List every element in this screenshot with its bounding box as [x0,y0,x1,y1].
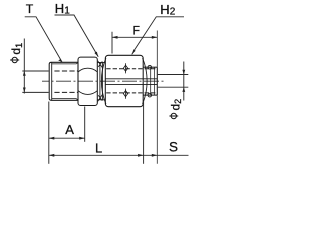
svg-text:F: F [133,23,141,37]
svg-text:S: S [169,139,178,154]
bore passage lower line [105,83,157,85]
collar cross top [98,61,103,68]
diamond bottom tick [125,89,127,99]
phi d2 extension bottom [158,86,189,88]
collar cross bottom [98,95,103,102]
phi d1 arrow down [23,88,26,93]
thread dashed core top [54,70,78,72]
H2 leader [132,17,184,55]
T leader arrow [58,59,62,62]
thread dashed core bottom [54,91,78,93]
svg-text:L: L [95,141,102,156]
F arrow right [152,36,158,39]
diamond top tick [125,63,127,73]
phi d1 extension bottom [22,91,48,93]
thread chamfer vertical [51,62,53,100]
A right extension [84,107,86,142]
dimension and leader lines [22,15,188,164]
A arrow left [49,137,55,140]
collar inner vertical 1 [150,67,152,95]
body end face [156,67,158,95]
collar between hexes [97,62,105,99]
phi d1 arrow up [23,71,26,76]
F dimension line [112,36,157,38]
L arrow right [138,154,144,157]
release collar circle top [148,65,152,69]
H1 leader [55,15,99,57]
bore passage upper line [105,78,157,80]
diamond on bottom dashed [123,91,127,97]
F arrow left [112,36,118,39]
label phi d1 (rotated) [9,43,24,63]
hex H2 outline [105,55,143,106]
diamond on top dashed [123,65,127,71]
hex H1 bottom facet arc [78,91,97,95]
hex H2 right facet arc [143,58,148,104]
L arrow left [49,154,55,157]
A dimension line [49,137,85,139]
A arrow right [79,137,85,140]
hex H1 outline [78,57,97,105]
svg-text:T: T [26,2,34,16]
arrowheads [23,36,185,157]
F left extension [111,32,113,54]
phi d1 extension top [22,70,48,72]
phi d2 arrow down to top ext [182,70,185,75]
L dimension line and S tail [49,154,189,156]
phi d1 dimension line [23,39,25,94]
S arrow right [152,154,158,157]
release collar circle bottom [148,93,152,97]
thread end chamfer top [76,62,78,64]
hex H2 left facet arc [101,58,106,104]
L right / S left extension [143,101,145,164]
H1 leader arrow [94,52,98,57]
phi d2 extension top [158,74,189,76]
T leader [25,17,62,62]
thread inner bottom line [52,98,76,100]
thread end chamfer bottom [76,99,78,101]
thread inner top line [52,63,76,65]
phi d2 dimension line [183,62,185,101]
hex H1 top facet arc [78,68,97,72]
right face long extension [156,31,158,164]
left face extension [48,102,50,164]
bore hidden dashed bottom [106,92,157,94]
phi d2 arrow up to bottom ext [182,87,185,92]
svg-text:A: A [65,122,74,137]
label phi d2 (rotated) [168,99,183,119]
H2 leader arrow [132,49,136,54]
centerline [42,80,164,82]
socket bottom edge [143,94,157,96]
thread body outline [49,62,78,100]
socket top edge [143,66,157,68]
collar inner vertical 2 [154,67,156,95]
bore hidden dashed top [106,68,157,70]
